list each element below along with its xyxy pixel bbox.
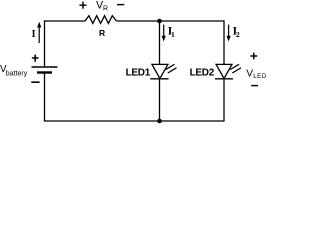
svg-text:battery: battery [6, 71, 28, 78]
wire: left vertical wire upper (top corner down to battery + plate) [44, 20, 46, 67]
svg-text:LED2: LED2 [190, 68, 215, 79]
battery minus sign [31, 81, 39, 83]
label + of V_LED [250, 53, 257, 60]
current arrow I1 (pointing down) [163, 25, 165, 37]
battery plus sign [32, 55, 39, 62]
battery V_battery short plate (-) [37, 71, 52, 73]
svg-text:R: R [103, 6, 108, 13]
battery V_battery long plate (+) [32, 66, 58, 68]
current arrow I2 (pointing down) [228, 25, 230, 37]
svg-text:2: 2 [236, 30, 240, 39]
wire: left vertical wire lower (battery - plate to bottom corner) [44, 73, 46, 122]
svg-text:I: I [32, 29, 36, 40]
label - of V_LED [251, 85, 258, 87]
svg-text:1: 1 [171, 30, 175, 39]
wire: LED1 branch lower (cathode to bottom junction) [159, 79, 161, 121]
wire: LED2 branch lower (cathode to bottom-right corner) [223, 79, 225, 122]
LED2 light ray 1 [230, 64, 239, 69]
LED2 light ray 2 [232, 68, 241, 73]
junction node dot (bottom, LED1 branch) [157, 119, 162, 124]
junction node dot (top, LED1 branch) [157, 19, 162, 24]
svg-text:LED1: LED1 [126, 68, 151, 79]
label + of V_R [79, 2, 86, 9]
wire: LED2 branch upper (top-right corner to LED2 anode) [223, 20, 225, 64]
wire: bottom wire [44, 120, 224, 122]
svg-text:R: R [99, 28, 105, 38]
resistor R (zigzag) [85, 16, 116, 24]
LED1 light ray 2 [168, 68, 177, 73]
wire: LED1 branch upper (junction to LED1 anode) [159, 21, 161, 64]
wire: top wire left segment (battery top to resistor) [45, 20, 86, 22]
current arrow I (left wire, pointing up) [38, 27, 40, 43]
LED2 diode triangle [216, 64, 232, 78]
wire: top wire right segment (resistor to LED2 branch) [116, 20, 224, 22]
label - of V_R [117, 4, 124, 6]
LED1 cathode bar [150, 78, 168, 80]
svg-text:LED: LED [253, 73, 267, 80]
LED1 diode triangle [152, 64, 168, 78]
LED1 light ray 1 [166, 64, 175, 69]
LED2 cathode bar [215, 78, 233, 80]
